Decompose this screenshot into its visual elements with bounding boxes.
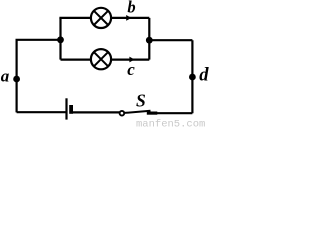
switch fixed contact [147, 111, 158, 114]
wire left loop (left vertical + horizontal to left junction) [17, 40, 61, 113]
wire bottom branch right [111, 58, 149, 60]
wire battery to switch [73, 111, 120, 113]
switch pivot circle [120, 111, 125, 116]
node junction right [146, 37, 153, 44]
node a dot [13, 76, 20, 83]
current arrow top branch [126, 15, 131, 21]
wire top branch right [111, 17, 149, 19]
wire switch to right corner [156, 112, 193, 114]
svg-text:manfen5.com: manfen5.com [136, 119, 205, 127]
switch lever [124, 111, 150, 113]
node junction left [57, 36, 64, 43]
lamp L1 [91, 8, 111, 28]
wire right junction to right side [149, 39, 192, 41]
svg-text:b: b [127, 0, 135, 17]
svg-text:c: c [127, 60, 135, 79]
wire branch right vertical [148, 18, 150, 60]
wire bottom branch left [61, 58, 92, 60]
node d dot [189, 74, 196, 81]
current arrow bottom branch [129, 57, 134, 63]
wire right vertical [191, 40, 193, 113]
battery long plate [65, 98, 67, 119]
battery short plate [69, 105, 73, 114]
lamp L2 [91, 49, 111, 69]
wire branch split vertical [59, 18, 61, 60]
svg-text:a: a [1, 67, 10, 86]
svg-text:d: d [199, 66, 209, 86]
wire bottom left (to battery) [17, 111, 66, 113]
svg-text:S: S [136, 90, 146, 110]
wire top branch left [59, 17, 91, 19]
